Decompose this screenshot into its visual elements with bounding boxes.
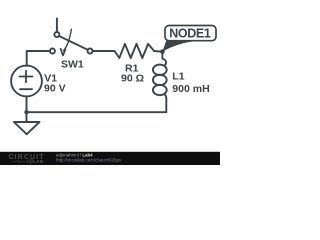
svg-text:900 mH: 900 mH <box>172 83 209 95</box>
svg-text:http://circuitlab.com/c5auz062: http://circuitlab.com/c5auz0625pv <box>56 158 122 163</box>
svg-text:SW1: SW1 <box>61 59 84 71</box>
svg-text:NODE1: NODE1 <box>169 27 211 41</box>
svg-text:L1: L1 <box>172 71 184 83</box>
svg-text:90 V: 90 V <box>44 83 66 95</box>
svg-text:90 Ω: 90 Ω <box>121 73 144 85</box>
svg-text:—∿—▪⦿LAB: —∿—▪⦿LAB <box>12 158 44 165</box>
